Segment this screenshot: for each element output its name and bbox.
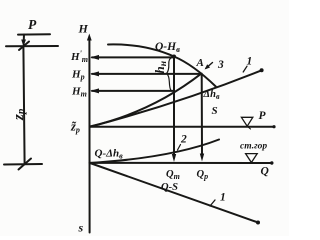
surface line [6, 45, 58, 47]
dimension line Zp [23, 46, 24, 164]
system curve 3 (zp to A) [90, 74, 201, 127]
arrow from P line down to surface [23, 35, 25, 45]
svg-text:ст.гор: ст.гор [240, 142, 267, 152]
Q axis [89, 162, 271, 164]
svg-text:Q-S: Q-S [161, 182, 178, 193]
H axis arrowhead [87, 34, 92, 41]
brace hн [167, 58, 172, 91]
lower line Q-S (1) [90, 163, 258, 223]
svg-text:Hт: Hт [71, 86, 87, 99]
svg-text:Hр: Hр [71, 69, 85, 82]
label Zp (rotated) [11, 108, 27, 121]
dot on pump curve [172, 55, 176, 59]
svg-text:Qт: Qт [166, 169, 180, 181]
svg-text:P: P [28, 17, 37, 32]
top short line under P [18, 33, 50, 35]
svg-text:A: A [196, 57, 204, 69]
svg-text:Q-Δhв: Q-Δhв [95, 148, 124, 161]
tick from 2 to curve [178, 145, 181, 151]
svg-text:hн: hн [152, 61, 169, 74]
svg-text:Qр: Qр [197, 169, 209, 181]
arrow Ht (to axis) [92, 90, 173, 92]
svg-text:Q-Hв: Q-Hв [155, 41, 180, 54]
svg-text:z̃р: z̃р [70, 120, 80, 135]
dot at end of lower line [256, 221, 260, 225]
arrow Hp (to axis) [92, 73, 201, 75]
svg-text:H: H [78, 22, 89, 36]
arrow H't (to axis) [92, 56, 174, 58]
vertical Qр line [201, 74, 203, 155]
svg-text:H'т: H'т [70, 49, 88, 64]
slash tick at surface arrow [19, 42, 29, 51]
dot at end of P level line [272, 125, 275, 128]
line 1 (upper, to dot) [90, 70, 262, 127]
nabla level mark (P) [241, 117, 252, 126]
lower curve Q-Δhв (2) [90, 140, 219, 164]
bottom datum short line [4, 163, 42, 166]
svg-text:Q: Q [261, 166, 269, 178]
label hн (rotated) [152, 61, 169, 74]
Q axis end dot [270, 161, 273, 164]
H axis [88, 38, 90, 233]
svg-text:1: 1 [247, 56, 253, 68]
nabla level mark (ст.гор) [246, 154, 258, 163]
tick on lower line [210, 200, 215, 206]
svg-text:1: 1 [220, 192, 226, 204]
arrow 3 pointing at A [206, 63, 213, 69]
svg-text:P: P [259, 110, 267, 122]
tick on line 1 [243, 66, 247, 72]
svg-text:zр: zр [11, 108, 27, 121]
svg-text:2: 2 [180, 134, 187, 146]
vertical Qт line [173, 57, 175, 156]
horizontal P level line [90, 126, 274, 128]
svg-text:s: s [78, 221, 84, 235]
svg-text:S: S [212, 105, 218, 117]
svg-text:3: 3 [217, 59, 224, 71]
pump curve Q-Hв [108, 44, 174, 56]
dot at end of line 1 [260, 68, 264, 72]
slash tick at bottom datum [19, 159, 32, 170]
